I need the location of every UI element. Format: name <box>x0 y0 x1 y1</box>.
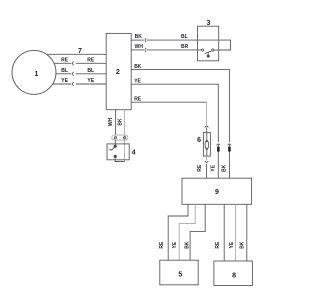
svg-text:YE: YE <box>211 164 217 171</box>
svg-text:9: 9 <box>215 189 219 196</box>
svg-text:6: 6 <box>197 137 201 144</box>
svg-text:RE: RE <box>87 58 95 64</box>
svg-text:YE: YE <box>87 78 94 84</box>
svg-text:WH: WH <box>135 44 144 50</box>
svg-text:BK: BK <box>135 34 143 40</box>
svg-text:RE: RE <box>159 241 165 249</box>
svg-text:4: 4 <box>132 150 136 157</box>
svg-text:BK: BK <box>222 164 228 172</box>
svg-text:WH: WH <box>108 117 114 126</box>
svg-text:BK: BK <box>239 241 245 249</box>
svg-text:3: 3 <box>206 20 210 27</box>
svg-text:BL: BL <box>61 68 68 74</box>
svg-text:BK: BK <box>184 241 190 249</box>
svg-text:BL: BL <box>181 34 188 40</box>
svg-text:YE: YE <box>61 78 68 84</box>
svg-text:RE: RE <box>61 58 69 64</box>
svg-text:7: 7 <box>78 48 82 55</box>
svg-text:1: 1 <box>35 71 39 78</box>
svg-text:YE: YE <box>134 78 141 84</box>
svg-text:RE: RE <box>134 97 142 103</box>
svg-text:BR: BR <box>181 44 189 50</box>
svg-text:5: 5 <box>178 271 182 278</box>
svg-text:8: 8 <box>232 272 236 279</box>
svg-text:YE: YE <box>172 241 178 248</box>
svg-text:YE: YE <box>229 241 235 248</box>
svg-text:2: 2 <box>116 69 120 76</box>
svg-text:BK: BK <box>134 64 142 70</box>
svg-text:BL: BL <box>87 68 94 74</box>
svg-text:BK: BK <box>118 118 124 126</box>
svg-text:RE: RE <box>215 241 221 249</box>
svg-text:RE: RE <box>197 164 203 172</box>
